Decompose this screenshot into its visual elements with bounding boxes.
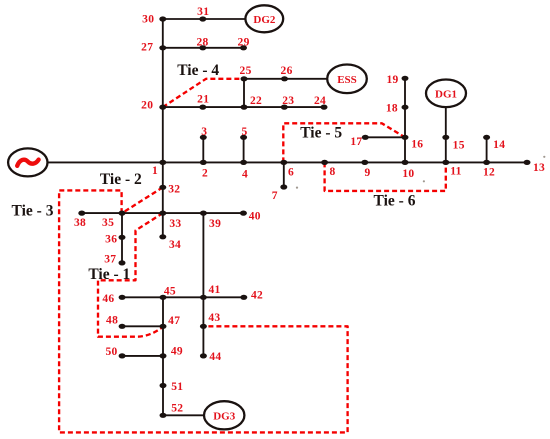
- svg-text:22: 22: [250, 95, 262, 107]
- svg-text:17: 17: [350, 136, 362, 148]
- svg-text:13: 13: [533, 162, 545, 174]
- svg-text:43: 43: [208, 312, 220, 324]
- svg-text:31: 31: [197, 6, 209, 18]
- svg-text:Tie - 4: Tie - 4: [177, 62, 219, 79]
- svg-text:20: 20: [141, 100, 153, 112]
- svg-text:51: 51: [171, 381, 183, 393]
- svg-text:38: 38: [74, 217, 86, 229]
- svg-text:11: 11: [450, 165, 461, 177]
- svg-text:33: 33: [169, 218, 181, 230]
- svg-text:3: 3: [201, 126, 207, 138]
- svg-text:18: 18: [386, 102, 398, 114]
- svg-text:44: 44: [209, 351, 221, 363]
- svg-text:8: 8: [329, 166, 335, 178]
- svg-text:10: 10: [402, 168, 414, 180]
- svg-text:25: 25: [240, 65, 252, 77]
- svg-text:46: 46: [102, 293, 114, 305]
- svg-text:Tie - 2: Tie - 2: [100, 171, 142, 188]
- svg-text:Tie - 1: Tie - 1: [88, 266, 130, 283]
- svg-text:23: 23: [282, 95, 294, 107]
- svg-text:Tie - 6: Tie - 6: [374, 193, 416, 210]
- svg-text:4: 4: [242, 169, 248, 181]
- svg-text:9: 9: [364, 167, 370, 179]
- svg-text:DG2: DG2: [253, 14, 276, 26]
- svg-text:27: 27: [141, 41, 153, 53]
- svg-text:12: 12: [483, 167, 495, 179]
- svg-text:Tie - 3: Tie - 3: [12, 202, 54, 219]
- svg-text:5: 5: [241, 126, 247, 138]
- svg-text:48: 48: [106, 315, 118, 327]
- svg-text:41: 41: [208, 284, 220, 296]
- svg-text:6: 6: [288, 167, 294, 179]
- svg-text:16: 16: [411, 139, 423, 151]
- svg-text:52: 52: [171, 403, 183, 415]
- svg-text:39: 39: [209, 218, 221, 230]
- svg-text:35: 35: [102, 217, 114, 229]
- svg-text:32: 32: [168, 184, 180, 196]
- svg-text:47: 47: [168, 315, 180, 327]
- svg-text:40: 40: [249, 211, 261, 223]
- svg-text:30: 30: [142, 13, 154, 25]
- svg-text:21: 21: [197, 93, 209, 105]
- svg-text:34: 34: [169, 239, 181, 251]
- svg-text:24: 24: [314, 95, 326, 107]
- svg-text:45: 45: [164, 285, 176, 297]
- svg-text:26: 26: [281, 65, 293, 77]
- svg-text:29: 29: [238, 37, 250, 49]
- svg-text:42: 42: [251, 290, 263, 302]
- svg-text:37: 37: [104, 253, 116, 265]
- svg-text:DG3: DG3: [213, 410, 236, 422]
- svg-text:DG1: DG1: [435, 88, 457, 100]
- svg-text:1: 1: [152, 165, 158, 177]
- svg-text:Tie - 5: Tie - 5: [300, 124, 342, 141]
- svg-text:7: 7: [272, 190, 278, 202]
- svg-text:2: 2: [202, 168, 208, 180]
- svg-text:50: 50: [105, 346, 117, 358]
- svg-text:14: 14: [493, 139, 505, 151]
- svg-text:15: 15: [453, 140, 465, 152]
- svg-text:19: 19: [386, 74, 398, 86]
- svg-text:28: 28: [196, 37, 208, 49]
- svg-text:49: 49: [171, 345, 183, 357]
- svg-text:ESS: ESS: [337, 74, 357, 86]
- svg-text:36: 36: [105, 233, 117, 245]
